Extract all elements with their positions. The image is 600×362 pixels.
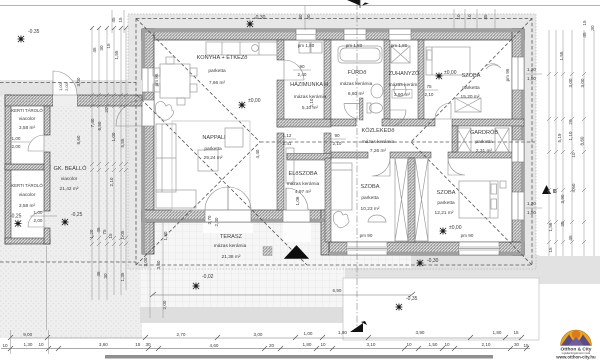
furdo basin	[371, 84, 383, 98]
interior door dim labels	[8, 64, 438, 226]
east wall	[512, 29, 524, 255]
svg-text:KERTI TÁROLÓ: KERTI TÁROLÓ	[11, 183, 43, 188]
wardrobe east of divider	[415, 158, 428, 241]
svg-text:45: 45	[483, 14, 488, 20]
svg-text:KÖZLEKEDő: KÖZLEKEDő	[362, 127, 395, 134]
ground: eave gray band around house	[128, 14, 536, 269]
svg-text:40: 40	[306, 14, 311, 20]
svg-text:5,19: 5,19	[557, 133, 562, 142]
svg-text:4,60: 4,60	[210, 343, 219, 348]
house interior white	[150, 36, 330, 214]
entrance triangle marker	[284, 245, 309, 259]
bottom gray scale bar	[105, 355, 493, 359]
svg-text:mázas kerámia: mázas kerámia	[340, 81, 373, 87]
door szoba1 from corridor	[372, 158, 390, 176]
svg-text:3,80: 3,80	[156, 260, 161, 269]
svg-text:3,60 m²: 3,60 m²	[394, 92, 411, 98]
svg-text:3,00: 3,00	[76, 77, 81, 86]
gardrob boxes	[457, 128, 471, 152]
svg-text:2,10: 2,10	[109, 177, 114, 186]
svg-text:1,30: 1,30	[163, 231, 168, 240]
corridor north wall	[331, 119, 356, 126]
svg-text:2,00: 2,00	[34, 218, 43, 223]
carport gate door arc in north wall	[53, 95, 77, 106]
bottom dimension row B	[1, 342, 530, 351]
bed szoba1	[331, 163, 352, 210]
bed szoba SE	[459, 181, 498, 218]
top small dim ticks	[454, 9, 495, 29]
annex west wall	[5, 95, 11, 244]
star -0.25 storage2	[14, 219, 23, 228]
svg-text:±0,00: ±0,00	[449, 225, 462, 231]
door hazimunka	[284, 60, 304, 80]
svg-text:-0,35: -0,35	[406, 296, 418, 302]
svg-text:2,41: 2,41	[283, 141, 292, 146]
svg-text:parketta: parketta	[208, 68, 226, 74]
svg-text:20: 20	[568, 119, 573, 125]
svg-text:10: 10	[456, 14, 461, 20]
svg-text:-0.35: -0.35	[28, 29, 40, 35]
svg-text:GARDRÓB: GARDRÓB	[470, 129, 499, 136]
logo mountains	[561, 335, 576, 346]
svg-text:3,90: 3,90	[416, 330, 425, 335]
annex middle wall	[5, 164, 50, 170]
tv console	[286, 148, 294, 183]
eloszoba north wall	[287, 154, 331, 161]
storage interior white	[11, 106, 44, 164]
svg-text:1,50: 1,50	[527, 76, 536, 81]
svg-text:5,55: 5,55	[120, 138, 125, 147]
star +-0.00 szoba SE	[439, 227, 448, 236]
storage door2 arc	[28, 211, 44, 227]
svg-text:45: 45	[111, 17, 116, 23]
svg-text:10: 10	[571, 152, 576, 158]
svg-text:parketta: parketta	[462, 85, 480, 91]
north wall	[142, 29, 524, 40]
svg-text:-0,30: -0,30	[427, 258, 439, 264]
dining table	[160, 64, 190, 98]
section marker A top	[347, 0, 369, 8]
svg-text:pm 90: pm 90	[360, 233, 373, 238]
door furdo	[344, 104, 360, 120]
svg-text:2,40: 2,40	[214, 217, 219, 226]
star -0.35 top left	[17, 35, 26, 44]
annex carport eave band	[0, 80, 142, 95]
svg-text:45: 45	[96, 227, 101, 233]
szoba1 round table	[368, 215, 386, 222]
svg-text:2,10: 2,10	[425, 92, 434, 97]
coffee table	[198, 150, 218, 171]
svg-text:3,58 m²: 3,58 m²	[19, 203, 36, 209]
svg-text:1,06: 1,06	[295, 196, 300, 205]
logo dome	[561, 330, 592, 346]
svg-text:30: 30	[103, 273, 108, 279]
star -0.30 bottom	[416, 259, 425, 268]
svg-text:parketta: parketta	[204, 146, 222, 152]
corridor south wall	[331, 152, 368, 158]
wardrobe west of divider	[395, 158, 408, 241]
svg-text:GK. BEÁLLÓ: GK. BEÁLLÓ	[54, 165, 88, 172]
svg-text:1,00: 1,00	[12, 136, 21, 141]
extension verticals bottom left	[11, 246, 49, 354]
door to carport from house	[116, 100, 142, 126]
annex east wall pieces	[44, 106, 50, 135]
wall furdo/zuhanyzo	[384, 40, 390, 119]
section marker B right	[542, 185, 557, 195]
star -0.02 terrace	[192, 282, 201, 291]
svg-text:-0,25: -0,25	[71, 212, 83, 218]
svg-text:6,60 m²: 6,60 m²	[348, 91, 365, 97]
top rule line	[0, 5, 600, 7]
left chain rotated dim texts	[76, 17, 125, 281]
annex bottom wall	[5, 238, 50, 244]
ground: driveway textured area west	[0, 80, 142, 338]
svg-text:3,58 m²: 3,58 m²	[19, 125, 36, 131]
svg-text:75: 75	[426, 84, 432, 89]
svg-text:10: 10	[467, 14, 472, 20]
svg-text:1,80: 1,80	[303, 342, 312, 347]
svg-text:1,00: 1,00	[111, 132, 116, 141]
terrace valley	[137, 95, 307, 265]
svg-text:6,50: 6,50	[97, 121, 102, 130]
svg-text:1,12: 1,12	[283, 133, 292, 138]
svg-text:2,70: 2,70	[207, 215, 212, 224]
svg-text:15: 15	[135, 342, 141, 347]
jog wall SW of east block	[321, 210, 329, 255]
svg-text:8,60: 8,60	[580, 136, 585, 145]
right vertical dimension chains	[549, 30, 594, 256]
svg-text:12,21 m²: 12,21 m²	[435, 210, 454, 216]
svg-text:15,20 m²: 15,20 m²	[461, 94, 480, 100]
svg-text:2,10: 2,10	[309, 98, 314, 107]
window S szoba SE pm90	[459, 242, 499, 255]
left vertical dimension chain lines	[92, 10, 126, 300]
svg-text:3,90: 3,90	[560, 194, 565, 203]
svg-text:www.otthon-city.hu: www.otthon-city.hu	[555, 355, 596, 360]
svg-text:2,10: 2,10	[482, 342, 491, 347]
svg-text:30: 30	[560, 221, 565, 227]
svg-text:KONYHA + ÉTKEZő: KONYHA + ÉTKEZő	[197, 54, 248, 61]
curtain arc top szoba	[486, 65, 501, 69]
shower tray	[391, 46, 410, 63]
svg-text:mázas kerám: mázas kerám	[389, 82, 418, 88]
svg-text:3,00: 3,00	[580, 78, 585, 87]
wall hazimunka/furdo	[324, 40, 331, 119]
wc toilet	[360, 98, 364, 120]
svg-text:viacolor: viacolor	[61, 176, 78, 182]
window E szoba SE	[512, 192, 524, 220]
svg-text:1,00: 1,00	[304, 331, 313, 336]
svg-text:SZOBA: SZOBA	[437, 190, 456, 196]
svg-text:7,26 m²: 7,26 m²	[370, 148, 387, 154]
svg-text:1,50: 1,50	[429, 342, 438, 347]
svg-text:1,00: 1,00	[34, 210, 43, 215]
svg-text:3,00: 3,00	[568, 78, 573, 87]
window S szoba1 pm90	[347, 242, 387, 255]
window E gardrob	[512, 140, 524, 162]
terrace double door arcs	[205, 187, 228, 210]
doormat	[263, 247, 272, 256]
kitchen counter	[206, 42, 277, 55]
svg-text:pm 1,80: pm 1,80	[346, 43, 363, 48]
star +-0.00 kitchen	[238, 101, 247, 110]
carport roof north edge	[0, 82, 136, 84]
svg-text:-0.30: -0.30	[254, 15, 266, 21]
annex north wall east piece	[77, 95, 142, 106]
svg-text:parketta: parketta	[361, 195, 379, 201]
sofa	[156, 124, 176, 192]
roof outline rect	[136, 19, 532, 266]
star -0.30 top	[246, 20, 255, 29]
svg-text:15: 15	[118, 17, 123, 23]
svg-text:30: 30	[99, 45, 104, 51]
svg-text:4,97 m²: 4,97 m²	[295, 189, 312, 195]
porch white patches	[283, 222, 311, 242]
svg-text:15: 15	[513, 330, 519, 335]
svg-text:pm 1,80: pm 1,80	[391, 43, 408, 48]
svg-text:30: 30	[514, 342, 520, 347]
hazimunka appliances	[299, 42, 310, 53]
parapet labels	[154, 43, 510, 238]
entry door opening	[283, 210, 310, 222]
svg-text:4,40: 4,40	[255, 149, 260, 158]
svg-text:90: 90	[299, 64, 305, 69]
svg-text:1,30: 1,30	[24, 342, 33, 347]
svg-text:3,10: 3,10	[367, 342, 376, 347]
side table rect	[225, 128, 243, 147]
svg-text:15: 15	[523, 343, 529, 348]
svg-text:pm 95: pm 95	[505, 68, 510, 81]
svg-text:15: 15	[548, 247, 553, 253]
star -0.35 bottom right	[395, 303, 404, 312]
window dims right side	[526, 67, 542, 215]
svg-text:45: 45	[568, 235, 573, 241]
svg-text:3,00: 3,00	[254, 332, 263, 337]
svg-text:2,40: 2,40	[298, 72, 307, 77]
south wall living room	[142, 210, 329, 222]
section line A vertical	[356, 3, 358, 332]
carport roof south dash	[0, 261, 136, 263]
svg-text:10: 10	[320, 342, 326, 347]
window E szoba pm95	[512, 57, 524, 90]
svg-text:7,40: 7,40	[90, 118, 95, 127]
eloszoba west wall	[277, 133, 284, 210]
svg-text:ELőSZOBA: ELőSZOBA	[289, 171, 318, 177]
svg-text:SZOBA: SZOBA	[361, 184, 380, 190]
svg-text:1,56: 1,56	[548, 222, 553, 231]
svg-text:10: 10	[444, 342, 450, 347]
svg-text:viacolor: viacolor	[19, 192, 36, 198]
svg-text:45: 45	[96, 271, 101, 277]
star -0.25 carport	[61, 218, 70, 227]
window N furdo pm180	[344, 29, 366, 40]
svg-text:2,31 m²: 2,31 m²	[476, 148, 493, 154]
window W kitchen pm95	[142, 68, 154, 92]
svg-text:15: 15	[108, 233, 113, 239]
svg-text:10: 10	[2, 343, 8, 348]
storage door1 arc	[28, 135, 44, 151]
svg-text:75: 75	[102, 229, 107, 235]
kitchen plant	[156, 101, 174, 120]
insulation stripes on exterior walls	[142, 29, 524, 255]
terrace textured area	[150, 222, 411, 268]
svg-text:1,20: 1,20	[527, 67, 536, 72]
dim 6.90 terrace	[150, 288, 415, 297]
svg-text:TERASZ: TERASZ	[220, 234, 243, 240]
svg-text:45: 45	[92, 47, 97, 53]
south wall east part	[329, 242, 524, 255]
svg-text:pm 95: pm 95	[154, 73, 159, 86]
eave dotted outline	[128, 14, 536, 269]
garden white area	[343, 278, 539, 340]
svg-text:mázas kerámia: mázas kerámia	[214, 243, 247, 249]
west wall door to carport	[142, 100, 154, 126]
wall konyha/hazimunka	[277, 40, 284, 60]
svg-text:pm 90: pm 90	[461, 233, 474, 238]
door szoba N	[435, 103, 451, 119]
ridge	[260, 141, 535, 143]
living room rug outline	[172, 121, 250, 210]
svg-text:30: 30	[590, 25, 595, 31]
svg-text:-0,02: -0,02	[202, 274, 214, 280]
entry plant	[333, 211, 349, 228]
svg-text:1,55: 1,55	[559, 51, 564, 60]
svg-text:15: 15	[582, 20, 587, 26]
west wall	[142, 29, 154, 254]
window N hazimunka pm180	[296, 29, 316, 40]
svg-text:2,00: 2,00	[162, 300, 167, 309]
svg-text:1,35: 1,35	[120, 272, 125, 281]
bottom dimension row A	[8, 330, 524, 340]
svg-text:2,10: 2,10	[333, 141, 342, 146]
bed top szoba	[426, 47, 470, 75]
window N zuhanyzo pm180	[389, 29, 411, 40]
cabinet top szoba	[455, 98, 481, 112]
hazimunka south wall	[277, 119, 331, 127]
svg-text:3,60: 3,60	[99, 342, 108, 347]
door zuhanyzo	[390, 110, 406, 126]
svg-text:NAPPALI: NAPPALI	[202, 135, 226, 141]
svg-text:45: 45	[582, 32, 587, 38]
wall zuhanyzo/szoba	[418, 40, 424, 119]
svg-text:HÁZIMUNKA H.: HÁZIMUNKA H.	[290, 81, 330, 88]
svg-text:3,00: 3,00	[143, 257, 148, 266]
svg-text:1,20: 1,20	[527, 201, 536, 206]
terrace door opening	[205, 210, 251, 222]
svg-text:20: 20	[104, 107, 109, 113]
logo sun	[572, 330, 580, 338]
svg-text:KERTI TÁROLÓ: KERTI TÁROLÓ	[11, 108, 43, 113]
svg-text:ZUHANYZÓ: ZUHANYZÓ	[389, 70, 420, 77]
svg-text:pm 1,80: pm 1,80	[298, 43, 315, 48]
svg-text:20: 20	[269, 343, 275, 348]
svg-text:2,00: 2,00	[64, 82, 69, 91]
svg-text:8,60: 8,60	[76, 135, 81, 144]
zuhanyzo basin	[394, 84, 406, 97]
svg-text:parketta: parketta	[437, 200, 455, 206]
svg-text:15: 15	[106, 43, 111, 49]
svg-text:10,23 m²: 10,23 m²	[361, 206, 380, 212]
svg-text:29,24 m²: 29,24 m²	[204, 155, 223, 161]
svg-text:1,55: 1,55	[114, 50, 119, 59]
door szoba SE from corridor	[448, 158, 465, 175]
svg-text:1,80: 1,80	[493, 330, 502, 335]
NW hip	[136, 19, 260, 143]
ground: gray band east of house	[536, 256, 600, 284]
annex north wall	[5, 95, 53, 106]
bath tub	[338, 46, 382, 63]
svg-text:21,38 m²: 21,38 m²	[222, 254, 241, 260]
svg-text:30: 30	[145, 342, 151, 347]
gray strip south of terrace	[140, 307, 345, 323]
svg-text:SZOBA: SZOBA	[462, 73, 481, 79]
svg-text:2,70: 2,70	[177, 332, 186, 337]
svg-text:1,00: 1,00	[58, 82, 63, 91]
entry door arc	[286, 188, 308, 210]
svg-text:-0,25: -0,25	[10, 214, 22, 220]
NE hip	[411, 19, 532, 143]
svg-text:10: 10	[406, 342, 412, 347]
svg-text:1,80: 1,80	[338, 330, 347, 335]
gardrob west wall	[452, 126, 458, 152]
section marker A bottom	[350, 321, 367, 332]
svg-text:6,90: 6,90	[333, 288, 342, 293]
svg-text:±0,00: ±0,00	[444, 70, 457, 76]
svg-text:40: 40	[298, 14, 303, 20]
SW valley	[136, 142, 260, 265]
svg-text:parketta: parketta	[475, 139, 493, 145]
svg-text:FÜRDő: FÜRDő	[348, 69, 367, 76]
svg-text:10: 10	[38, 342, 44, 347]
svg-text:viacolor: viacolor	[19, 116, 36, 122]
svg-text:7,66 m²: 7,66 m²	[209, 80, 226, 86]
SE hip	[411, 142, 532, 265]
svg-text:2,00: 2,00	[12, 144, 21, 149]
svg-text:9,00: 9,00	[23, 332, 32, 337]
star +-0.00 szoba N	[435, 72, 444, 81]
svg-text:90: 90	[334, 133, 340, 138]
bedroom divider wall	[408, 158, 415, 242]
svg-text:mázas kerámia: mázas kerámia	[362, 139, 395, 145]
svg-text:mázas kerámia: mázas kerámia	[287, 181, 320, 187]
szoba1 west wall	[325, 158, 331, 242]
svg-text:1,50: 1,50	[527, 210, 536, 215]
svg-text:1,10: 1,10	[568, 131, 573, 140]
svg-text:4,50: 4,50	[571, 183, 576, 192]
terrace inner dim line	[150, 222, 163, 318]
svg-text:±0,00: ±0,00	[248, 98, 261, 104]
svg-text:21,42 m²: 21,42 m²	[60, 186, 79, 192]
